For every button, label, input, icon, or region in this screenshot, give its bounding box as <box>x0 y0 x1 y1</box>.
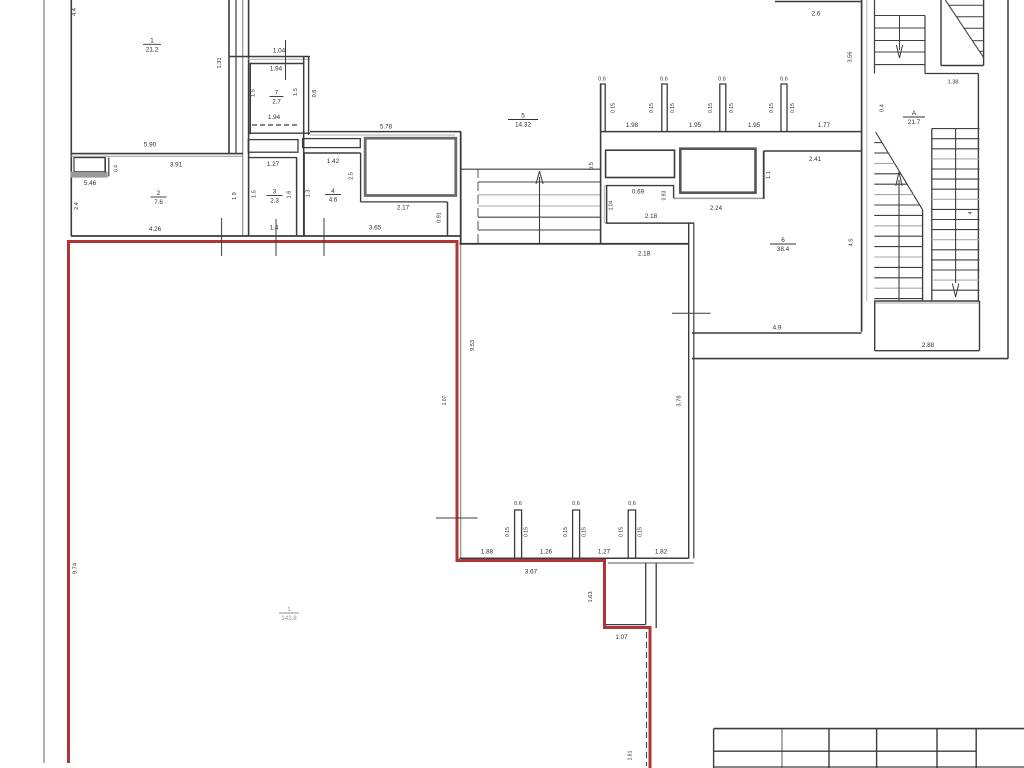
upper flight tread 2 <box>875 27 926 29</box>
stair5 tread 1 <box>478 181 600 183</box>
room 7 left wall <box>249 63 251 134</box>
room 7 top wall <box>250 63 304 65</box>
rooms bottom wall <box>71 235 460 237</box>
top right block east <box>983 0 985 66</box>
door tick room 7 <box>285 40 287 80</box>
pier 4 upper row <box>781 84 787 132</box>
svg-text:1.42: 1.42 <box>327 158 340 165</box>
svg-text:3.56: 3.56 <box>848 51 854 62</box>
svg-text:2.17: 2.17 <box>397 205 410 212</box>
svg-text:1.07: 1.07 <box>442 395 448 405</box>
svg-text:1.94: 1.94 <box>270 66 283 73</box>
lower left flight diagonal <box>876 132 923 210</box>
svg-text:5.90: 5.90 <box>144 142 157 149</box>
lower left tread 13 <box>874 266 922 268</box>
room 3 top wall <box>249 157 297 159</box>
lower right tread 14 <box>932 259 980 261</box>
svg-text:0.15: 0.15 <box>790 103 796 113</box>
red outline of leased area room 1 <box>69 242 651 768</box>
svg-text:0.15: 0.15 <box>708 103 714 113</box>
room 4 right wall <box>360 153 362 202</box>
strip rect right <box>303 139 361 148</box>
top right block diagonal <box>945 0 983 58</box>
svg-text:4: 4 <box>331 188 335 195</box>
table vertical 5 <box>936 729 938 768</box>
svg-text:3.65: 3.65 <box>369 225 382 232</box>
lower right tread 17 <box>932 289 980 291</box>
east wall dark <box>460 132 462 244</box>
svg-text:1.6: 1.6 <box>287 191 293 199</box>
room 7 right wall <box>303 57 305 237</box>
upper flight tread 1 <box>875 15 926 17</box>
upper flight east line <box>924 16 926 74</box>
table vertical 3 <box>828 729 830 768</box>
upper flight tread 4 <box>875 51 926 53</box>
corridor wall gray <box>242 0 244 236</box>
room 3 right wall <box>296 158 298 236</box>
svg-text:4.4: 4.4 <box>72 7 78 16</box>
long west wall line1 <box>688 223 690 558</box>
lower right tread 3 <box>932 148 980 150</box>
room 2 label 2/7.6 <box>151 190 167 206</box>
svg-text:0.15: 0.15 <box>563 527 569 537</box>
room 1 right wall inner <box>228 0 230 154</box>
svg-text:2: 2 <box>157 190 161 197</box>
svg-text:142.8: 142.8 <box>281 615 297 622</box>
lower left tread 6 <box>874 194 913 196</box>
svg-text:9.74: 9.74 <box>73 562 79 574</box>
svg-text:0.8: 0.8 <box>312 90 318 98</box>
svg-text:1.4: 1.4 <box>270 225 279 232</box>
lower right tread 10 <box>932 219 980 221</box>
wall 5.78 dark <box>310 131 461 133</box>
svg-text:2.6: 2.6 <box>812 11 821 18</box>
top right block tread 2 <box>957 16 984 18</box>
room 1 left wall <box>70 0 72 236</box>
room 7 label 7/2.7 <box>270 90 284 106</box>
room 6 label 6/38.4 <box>770 237 796 253</box>
svg-text:1.61: 1.61 <box>628 750 634 760</box>
tick on east wall <box>436 517 478 519</box>
lower right tread 9 <box>932 208 980 210</box>
lower right tread 7 <box>932 188 980 190</box>
step east wall 2 <box>655 563 657 628</box>
svg-text:0.6: 0.6 <box>628 501 636 507</box>
lower right tread 2 <box>932 138 980 140</box>
lower left tread 14 <box>874 277 922 279</box>
svg-text:0.6: 0.6 <box>780 77 788 83</box>
room 7 right wall outer <box>308 57 310 136</box>
room069 bottom wall <box>606 222 694 224</box>
svg-text:1: 1 <box>287 606 291 613</box>
svg-text:3.67: 3.67 <box>525 569 538 576</box>
svg-text:4.26: 4.26 <box>149 226 162 233</box>
lower left tread 15 <box>874 287 922 289</box>
upper flight down arrow <box>896 45 902 58</box>
south long wall <box>692 358 1008 360</box>
svg-text:1.95: 1.95 <box>689 122 702 129</box>
stairwell east outer wall <box>1007 0 1009 359</box>
svg-text:2.7: 2.7 <box>272 99 281 106</box>
table vertical 4 <box>876 729 878 768</box>
svg-text:0.15: 0.15 <box>638 527 644 537</box>
room069 top wall <box>606 185 674 187</box>
svg-text:5.78: 5.78 <box>380 124 393 131</box>
lower right tread 12 <box>932 239 980 241</box>
upper flight center <box>899 16 901 51</box>
svg-text:0.4: 0.4 <box>114 165 120 172</box>
room 7 bottom wall <box>249 132 310 134</box>
step east wall <box>645 563 647 625</box>
stair5 tread 5 <box>478 229 600 231</box>
svg-text:7.6: 7.6 <box>154 199 163 206</box>
big duct rectangle <box>365 138 456 195</box>
svg-text:0.6: 0.6 <box>514 501 522 507</box>
room 2 gray sill <box>71 172 108 178</box>
table vertical 6 <box>975 729 977 768</box>
lower right tread 5 <box>932 168 980 170</box>
svg-text:4.9: 4.9 <box>773 325 782 332</box>
svg-text:0.91: 0.91 <box>437 212 443 223</box>
corridor bottom wall <box>460 243 689 245</box>
svg-text:7: 7 <box>275 90 279 97</box>
top right block tread 3 <box>964 27 984 29</box>
svg-text:38.4: 38.4 <box>777 246 790 253</box>
svg-text:1.5: 1.5 <box>251 89 257 97</box>
east wall gray lower <box>460 244 462 560</box>
svg-text:0.15: 0.15 <box>769 103 775 113</box>
svg-text:21.2: 21.2 <box>146 46 159 53</box>
room 6 left wall <box>763 151 765 199</box>
room 3 label 3/2.3 <box>267 189 283 205</box>
svg-text:21.7: 21.7 <box>908 119 921 126</box>
svg-text:1.26: 1.26 <box>540 549 553 556</box>
step bottom wall <box>606 624 646 626</box>
svg-text:2.41: 2.41 <box>809 156 822 163</box>
room 6 bottom wall <box>692 332 862 334</box>
table vertical 1 <box>713 729 715 768</box>
lower left tread 12 <box>874 256 922 258</box>
pier row wall <box>600 131 862 133</box>
pier 1 upper row <box>601 84 606 132</box>
svg-text:1.77: 1.77 <box>818 122 831 129</box>
pier 3 upper row <box>720 84 726 132</box>
lower pier wall gray <box>608 562 694 564</box>
room 4 top wall <box>304 152 361 154</box>
svg-text:0.15: 0.15 <box>582 527 588 537</box>
tick room 6 wall <box>672 312 711 314</box>
stairwell inner wall top <box>874 0 876 74</box>
stairwell label A/21.7 <box>903 110 925 126</box>
lower left tread 5 <box>874 183 907 185</box>
stairwell west wall <box>861 0 863 332</box>
svg-text:1.38: 1.38 <box>948 80 959 86</box>
svg-text:9.53: 9.53 <box>470 340 476 351</box>
flights bottom gray <box>874 302 979 304</box>
svg-text:1.5: 1.5 <box>293 88 299 96</box>
stair5 dashed edge <box>477 169 479 243</box>
room069 left wall <box>606 186 608 223</box>
room 2 top wall second line <box>71 155 243 157</box>
room 4 left wall <box>303 153 305 236</box>
top right block tread 4 <box>972 40 983 42</box>
room069 right wall <box>673 186 675 199</box>
room 4 far right wall <box>447 202 449 236</box>
lower left tread 1 <box>874 142 882 144</box>
lower right down arrow <box>952 284 958 298</box>
pier 1 lower row <box>515 510 522 558</box>
lower left up arrow <box>896 172 902 186</box>
table middle line <box>714 750 977 752</box>
landing east wall <box>979 301 981 351</box>
svg-text:0.6: 0.6 <box>572 501 580 507</box>
lower right tread 6 <box>932 178 980 180</box>
svg-text:2.5: 2.5 <box>349 172 355 180</box>
room069 left gray <box>603 186 605 223</box>
svg-text:3: 3 <box>273 189 277 196</box>
table bottom line <box>714 766 1024 768</box>
svg-text:2.18: 2.18 <box>638 251 651 258</box>
tick below room 3 <box>275 219 277 256</box>
room 4 label 4/4.6 <box>325 188 341 204</box>
room 7 dashed opening <box>252 124 300 126</box>
svg-text:2.88: 2.88 <box>922 342 935 349</box>
pier wall west <box>600 84 602 244</box>
svg-text:0.69: 0.69 <box>632 189 645 196</box>
top wall gray line <box>248 58 310 60</box>
lower right center <box>955 129 957 283</box>
svg-text:4.5: 4.5 <box>849 238 855 246</box>
table top line <box>714 728 1024 730</box>
svg-text:1.82: 1.82 <box>655 549 668 556</box>
svg-text:1.98: 1.98 <box>626 122 639 129</box>
room 2 top wall <box>71 153 243 155</box>
pier 2 lower row <box>573 510 580 558</box>
svg-text:0.5: 0.5 <box>589 162 595 170</box>
lower right tread 11 <box>932 229 980 231</box>
svg-text:5.46: 5.46 <box>84 180 97 187</box>
vent rect A <box>606 150 675 177</box>
stair5 tread 3 <box>478 205 600 207</box>
long gray wall <box>674 197 764 199</box>
top right block bottom <box>941 65 984 67</box>
svg-text:3.78: 3.78 <box>677 395 683 406</box>
lower left tread 3 <box>874 162 894 164</box>
svg-text:1.07: 1.07 <box>615 634 628 641</box>
svg-text:1: 1 <box>150 38 154 45</box>
svg-text:4.6: 4.6 <box>329 197 338 204</box>
wall 5.78 gray <box>310 134 455 136</box>
pier 2 upper row <box>662 84 667 132</box>
lower left flight east line <box>922 210 924 301</box>
stair5 top line <box>462 168 601 170</box>
dashed property line <box>646 632 648 766</box>
corridor wall dark <box>248 0 250 236</box>
lower left tread 8 <box>874 214 922 216</box>
svg-text:4: 4 <box>968 211 974 214</box>
landing wall <box>925 73 978 75</box>
top right block tread 1 <box>949 4 984 6</box>
lower left tread 7 <box>874 204 919 206</box>
table vertical 2 <box>781 729 783 768</box>
svg-text:1.27: 1.27 <box>267 161 280 168</box>
lower left tread 16 <box>874 298 922 300</box>
ledge jamb 2 <box>108 158 110 177</box>
room 1 right wall outer <box>235 0 237 154</box>
svg-text:0.15: 0.15 <box>670 103 676 113</box>
svg-text:2.18: 2.18 <box>645 213 658 220</box>
svg-text:1.27: 1.27 <box>598 549 611 556</box>
svg-text:2.3: 2.3 <box>270 198 279 205</box>
lower pier wall <box>460 557 689 559</box>
svg-text:1.04: 1.04 <box>609 200 615 210</box>
svg-text:1.3: 1.3 <box>306 190 312 198</box>
svg-text:1.1: 1.1 <box>766 171 772 179</box>
upper flight tread 3 <box>875 40 926 42</box>
lower right tread 1 <box>932 128 980 130</box>
landing west wall <box>874 301 876 351</box>
svg-text:0.6: 0.6 <box>598 77 606 83</box>
lower right tread 8 <box>932 198 980 200</box>
lower right tread 15 <box>932 269 980 271</box>
stairwell inner east wall <box>977 74 979 302</box>
lower left tread 11 <box>874 246 922 248</box>
wall under big rect <box>361 201 448 203</box>
lower right tread 13 <box>932 249 980 251</box>
svg-text:6: 6 <box>781 237 785 244</box>
svg-text:1.04: 1.04 <box>273 48 286 55</box>
svg-text:0.15: 0.15 <box>649 103 655 113</box>
strip rect left <box>248 140 298 153</box>
room 1 label 1/142.8 <box>279 606 299 622</box>
lower left tread 4 <box>874 173 901 175</box>
svg-text:0.4: 0.4 <box>880 104 886 112</box>
lower left tread 9 <box>874 225 922 227</box>
tick below room 2 <box>221 218 223 256</box>
svg-text:1.63: 1.63 <box>588 591 594 602</box>
svg-text:14.32: 14.32 <box>515 122 531 129</box>
top right block west <box>940 0 942 66</box>
lower right tread 16 <box>932 279 980 281</box>
pier 3 lower row <box>628 510 635 558</box>
svg-text:0.15: 0.15 <box>619 527 625 537</box>
svg-text:0.15: 0.15 <box>524 527 530 537</box>
room 2 ledge <box>74 158 105 172</box>
tick below room 4 <box>323 218 325 256</box>
room 6 top wall <box>764 150 862 152</box>
lower left center <box>898 180 900 301</box>
svg-text:0.15: 0.15 <box>729 103 735 113</box>
svg-text:1.9: 1.9 <box>232 192 238 200</box>
stairwell west wall gray <box>866 0 868 301</box>
lower left tread 2 <box>874 152 888 154</box>
svg-text:0.15: 0.15 <box>611 103 617 113</box>
svg-text:3.91: 3.91 <box>170 162 183 169</box>
svg-text:0.6: 0.6 <box>718 77 726 83</box>
top wall stub <box>775 1 862 3</box>
svg-text:A: A <box>912 110 917 117</box>
svg-text:0.93: 0.93 <box>662 190 668 200</box>
long west wall line2 <box>693 223 695 558</box>
svg-text:1.31: 1.31 <box>217 57 223 68</box>
stair5 tread 4 <box>478 216 600 218</box>
svg-text:0.6: 0.6 <box>660 77 668 83</box>
stair5 center line <box>539 177 541 243</box>
room 1 label 1/21.2 <box>143 38 161 54</box>
svg-text:2.24: 2.24 <box>710 205 723 212</box>
lower left tread 10 <box>874 235 922 237</box>
site boundary line <box>43 0 45 763</box>
lower right tread 4 <box>932 158 980 160</box>
upper flight tread 5 <box>875 64 926 66</box>
room 5 label 5/14.32 <box>508 113 538 129</box>
svg-text:2.4: 2.4 <box>74 202 80 210</box>
svg-text:0.15: 0.15 <box>505 527 511 537</box>
ledge jamb 1 <box>104 158 106 173</box>
top wall above room 7 <box>229 56 310 58</box>
stair5 up arrow <box>536 171 543 184</box>
svg-text:5: 5 <box>521 113 525 120</box>
svg-text:1.5: 1.5 <box>252 190 258 198</box>
svg-text:1.95: 1.95 <box>748 122 761 129</box>
top right block tread 5 <box>979 50 983 52</box>
svg-text:1.94: 1.94 <box>268 114 281 121</box>
svg-text:1.88: 1.88 <box>481 549 494 556</box>
landing bottom wall <box>875 350 980 352</box>
stair5 tread 2 <box>478 194 600 196</box>
vent rect B thick <box>680 149 755 193</box>
lower right flight west line <box>931 129 933 301</box>
flights bottom line <box>874 300 979 302</box>
